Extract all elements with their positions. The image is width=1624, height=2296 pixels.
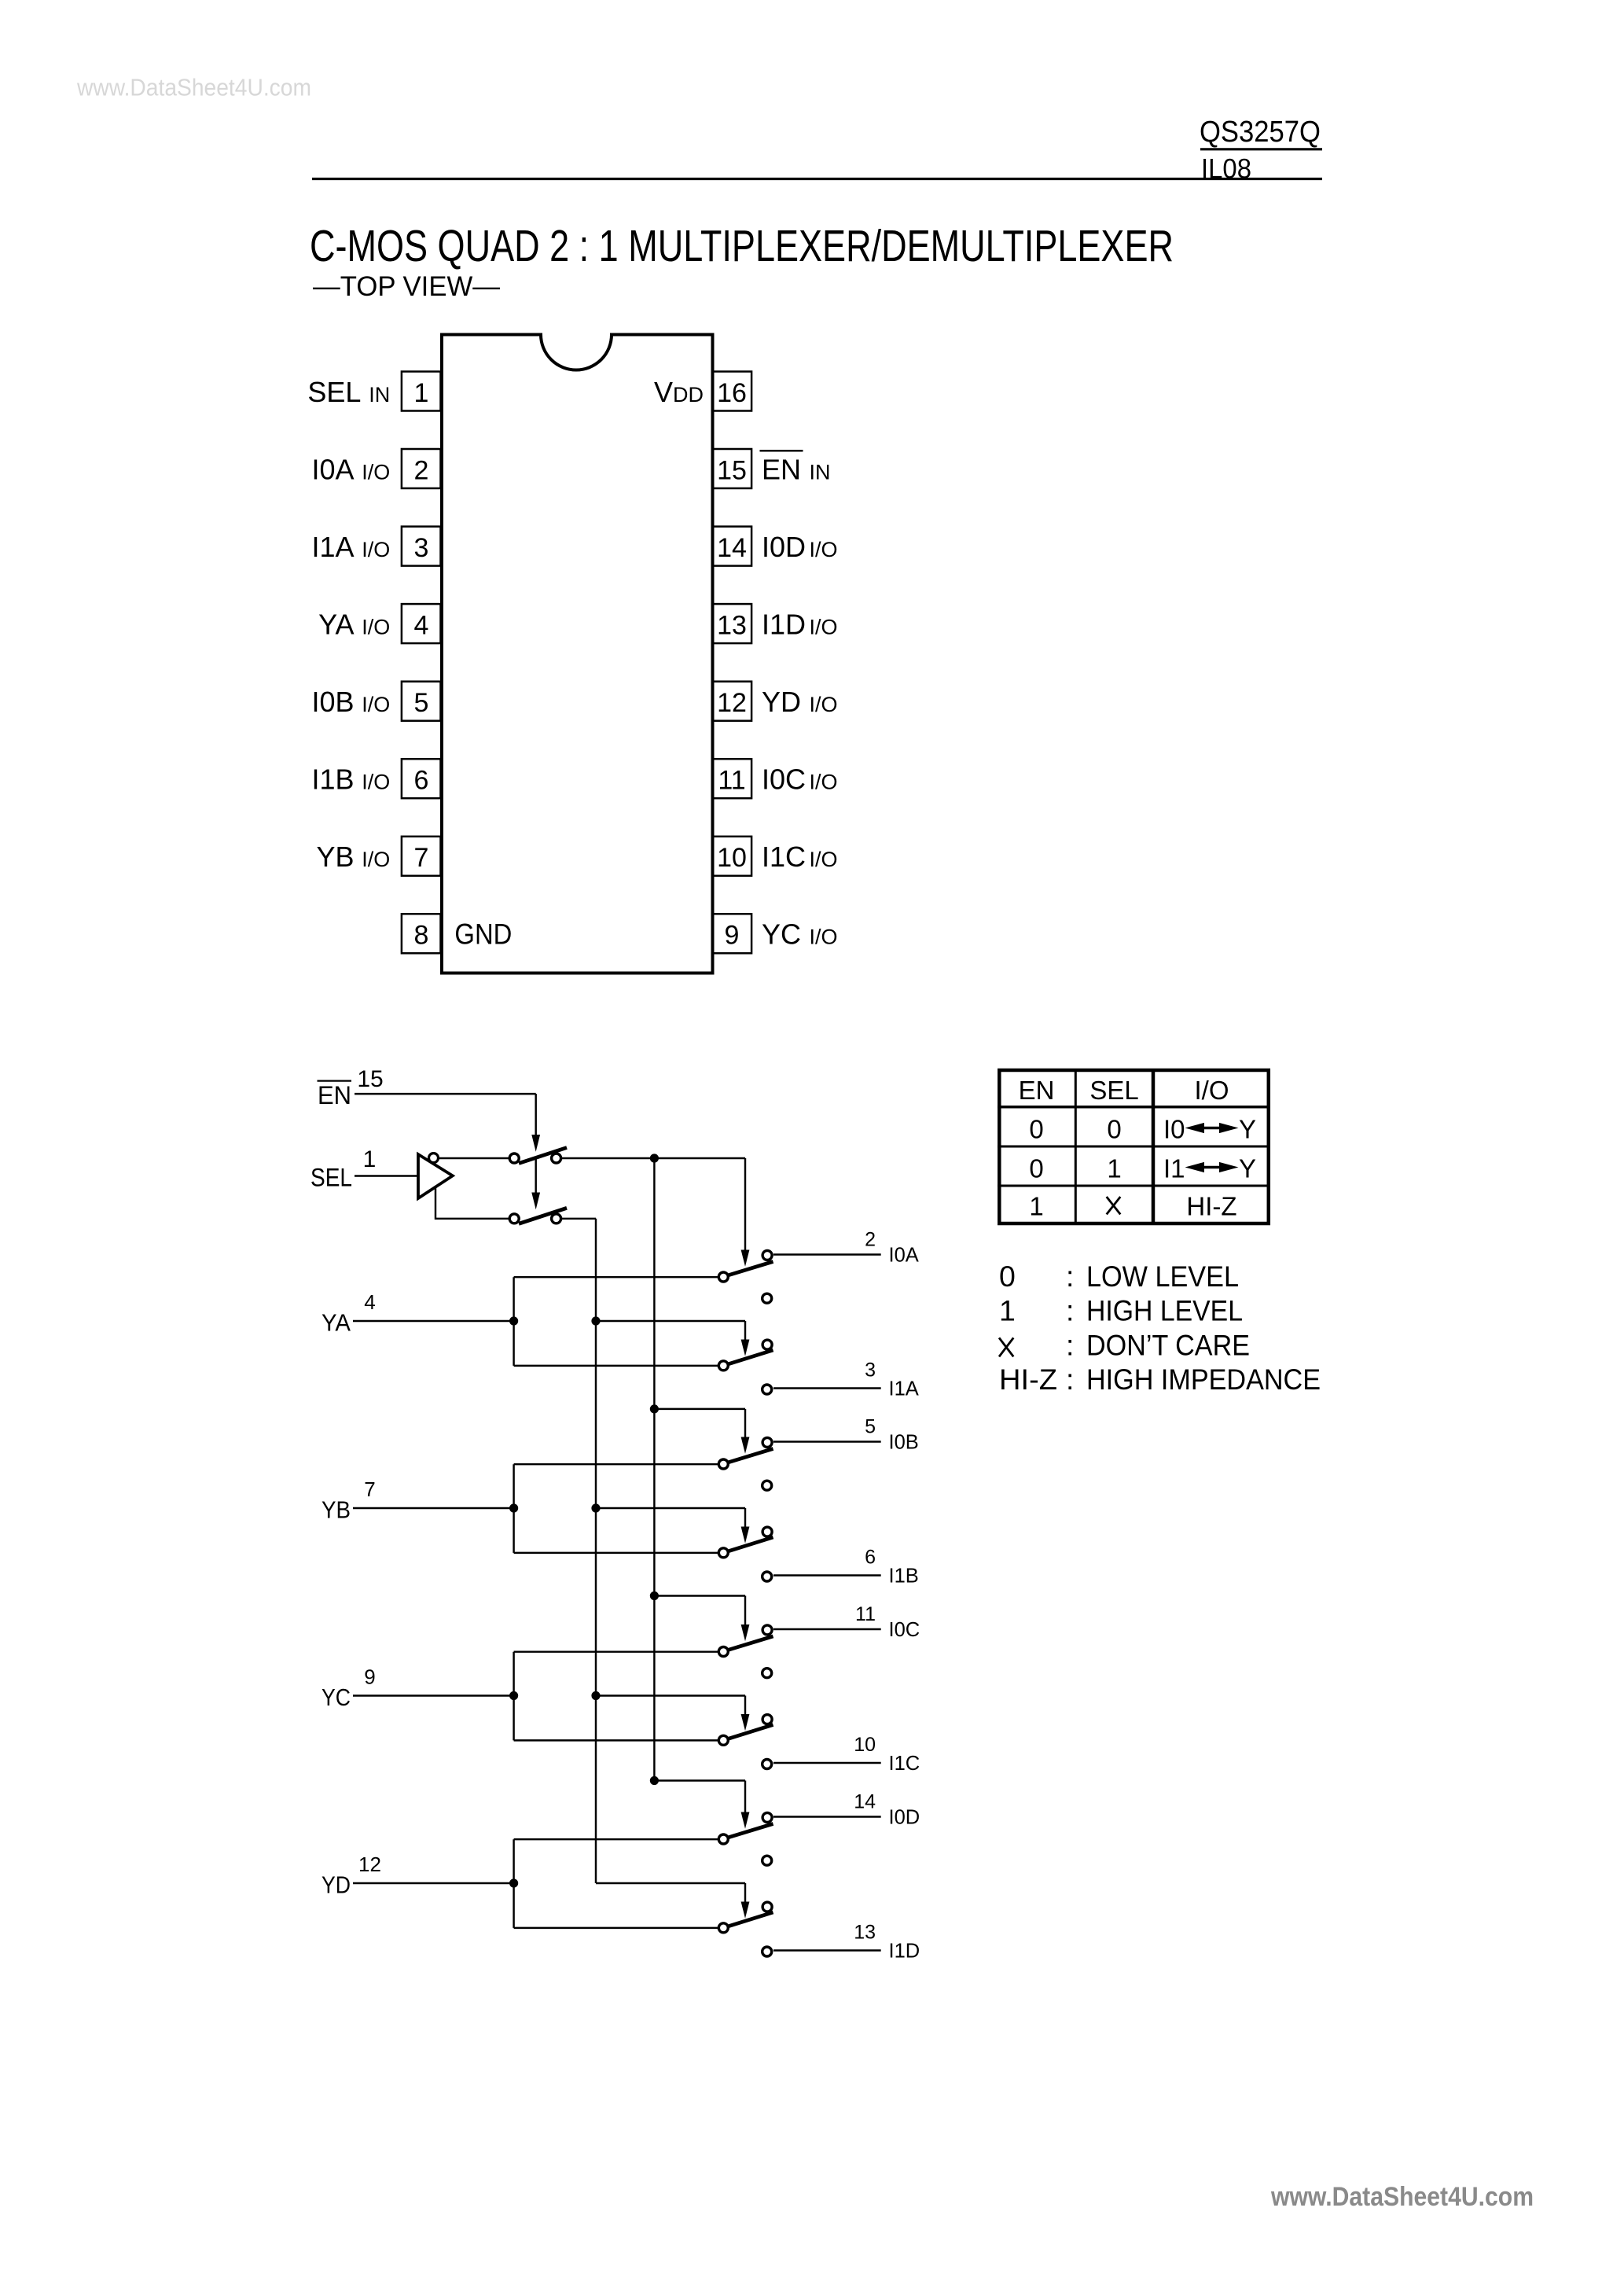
wire YB input <box>353 1507 514 1509</box>
svg-text::: : <box>1066 1260 1074 1293</box>
svg-text:I1D: I1D <box>889 1941 920 1963</box>
wire I0C to pin 11 <box>773 1628 881 1630</box>
svg-text:10: 10 <box>717 843 747 873</box>
wire I1A control drop <box>744 1321 746 1340</box>
svg-text:I1B: I1B <box>311 763 354 796</box>
junction SEL-bar tap channel D <box>650 1776 659 1785</box>
svg-text:I1C: I1C <box>762 841 806 873</box>
wire SEL tap to I1A control <box>596 1320 745 1322</box>
truth table frame <box>999 1070 1269 1223</box>
analog switch S1 (enable gate, SEL-bar path) <box>509 1148 567 1164</box>
inverter bubble on buffer complementary output <box>429 1154 439 1163</box>
pin 5 box <box>402 682 441 721</box>
svg-text:I/O: I/O <box>362 771 390 794</box>
truth table row line 1 <box>998 1146 1270 1148</box>
wire I0C control drop <box>744 1596 746 1625</box>
pin 9 label YC I/O <box>762 918 838 951</box>
legend row HI-Z HIGH IMPEDANCE <box>999 1363 1321 1396</box>
svg-text:YB: YB <box>321 1496 351 1524</box>
svg-text:I1A: I1A <box>311 531 354 563</box>
header rule <box>312 178 1322 180</box>
arrow /EN control into switch S2 <box>531 1193 540 1210</box>
svg-text:I0B: I0B <box>889 1432 919 1454</box>
svg-text:I1B: I1B <box>889 1566 919 1588</box>
svg-text:SEL: SEL <box>307 376 361 408</box>
svg-text:4: 4 <box>414 610 429 640</box>
pin 7 box <box>402 837 441 876</box>
pin 8 box <box>402 914 441 953</box>
node A junction (SEL-bar control net) <box>650 1154 659 1162</box>
wire YC to switch I0C common <box>514 1650 718 1652</box>
analog switch I1B <box>718 1527 773 1558</box>
svg-text:4: 4 <box>364 1290 375 1314</box>
svg-text:8: 8 <box>414 921 429 951</box>
wire SEL control net vertical <box>595 1219 597 1883</box>
svg-text:7: 7 <box>364 1477 375 1501</box>
svg-text:I/O: I/O <box>810 693 838 716</box>
wire YD branch vertical <box>513 1839 514 1928</box>
wire I0D control drop <box>744 1781 746 1812</box>
truth table column line SEL|I/O <box>1152 1069 1156 1225</box>
wire buffer true output to switch S2 <box>435 1187 509 1219</box>
wire I1C control drop <box>744 1696 746 1715</box>
svg-text:I0D: I0D <box>762 531 806 563</box>
wire YC to switch I1C common <box>514 1739 718 1741</box>
svg-text:0: 0 <box>1029 1115 1043 1144</box>
svg-text:www.DataSheet4U.com: www.DataSheet4U.com <box>76 74 311 101</box>
svg-text:10: 10 <box>854 1734 876 1756</box>
svg-text:16: 16 <box>717 378 747 408</box>
wire SEL-bar tap to I0B control <box>654 1408 745 1410</box>
svg-text:15: 15 <box>717 455 747 485</box>
open contact of switch I1C upper throw <box>762 1669 772 1678</box>
svg-text:I0: I0 <box>1163 1115 1185 1144</box>
pin 11 label I0C I/O <box>762 763 838 796</box>
pin 3 box <box>402 527 441 566</box>
svg-text:EN: EN <box>762 453 801 485</box>
wire YA input <box>353 1320 514 1322</box>
svg-text:I/O: I/O <box>362 615 390 638</box>
net YD label with pin number 12 <box>321 1853 381 1899</box>
svg-text:7: 7 <box>414 843 429 873</box>
pin 11 box <box>713 759 752 798</box>
svg-text:QS3257Q: QS3257Q <box>1200 116 1321 149</box>
truth table column line EN|SEL <box>1075 1069 1077 1225</box>
wire SEL tap to I1B control <box>596 1507 745 1509</box>
svg-text:YD: YD <box>762 686 801 718</box>
svg-text:YD: YD <box>321 1871 351 1899</box>
net YB label with pin number 7 <box>321 1477 376 1524</box>
svg-text:11: 11 <box>855 1603 876 1625</box>
svg-text:IN: IN <box>810 460 831 484</box>
wire SEL input to buffer <box>355 1175 417 1176</box>
junction SEL tap channel C <box>591 1691 600 1700</box>
net /EN label with overline and pin number 15 <box>318 1066 384 1109</box>
svg-text:LOW LEVEL: LOW LEVEL <box>1086 1260 1239 1293</box>
wire S2 output <box>561 1218 596 1220</box>
arrow control into switch I0C <box>741 1624 750 1641</box>
svg-text:13: 13 <box>717 610 747 640</box>
pin 13 label I1D I/O <box>762 608 838 640</box>
svg-text:EN: EN <box>1019 1076 1055 1105</box>
junction SEL-bar tap channel C <box>650 1591 659 1600</box>
svg-text:SEL: SEL <box>1089 1076 1138 1105</box>
analog switch I0B <box>718 1437 773 1469</box>
svg-text:0: 0 <box>999 1260 1016 1293</box>
wire SEL tap to I1C control <box>596 1694 745 1696</box>
svg-text:12: 12 <box>717 688 747 718</box>
svg-text::: : <box>1066 1294 1074 1327</box>
svg-text:V: V <box>654 376 673 408</box>
svg-text:5: 5 <box>865 1415 876 1437</box>
svg-text:I/O: I/O <box>810 771 838 794</box>
pin 15 label /EN IN (active-low enable) <box>760 451 831 485</box>
wire /EN vertical to switch S1 <box>535 1094 536 1135</box>
pin 16 label VDD <box>654 376 704 408</box>
svg-text:14: 14 <box>717 533 747 563</box>
pin 6 box <box>402 759 441 798</box>
svg-text:1: 1 <box>1029 1192 1043 1221</box>
open contact of switch I1A upper throw <box>762 1293 772 1303</box>
wire I1B to pin 6 <box>773 1574 881 1576</box>
svg-text:9: 9 <box>725 921 740 951</box>
junction YA branch <box>509 1316 518 1325</box>
svg-text:13: 13 <box>854 1922 876 1944</box>
pin 4 box <box>402 604 441 643</box>
wire I1C to pin 10 <box>773 1762 881 1764</box>
pin 15 box <box>713 449 752 488</box>
wire YA to switch I1A common <box>514 1365 718 1367</box>
pin 4 label YA I/O <box>318 608 390 640</box>
svg-text:3: 3 <box>865 1360 876 1382</box>
truth table header rule <box>998 1106 1270 1109</box>
wire YB branch vertical <box>513 1464 514 1553</box>
wire I1D to pin 13 <box>773 1949 881 1951</box>
doc number underline <box>1200 148 1322 150</box>
analog switch I1A <box>718 1340 773 1371</box>
IC package outline (DIP-16, top view) <box>442 335 713 973</box>
svg-text:15: 15 <box>357 1066 383 1092</box>
wire YA branch vertical <box>513 1277 514 1366</box>
wire YD to switch I0D common <box>514 1838 718 1840</box>
arrow control into switch I0B <box>741 1437 750 1454</box>
svg-text:SEL: SEL <box>310 1164 352 1192</box>
net YC label with pin number 9 <box>321 1665 376 1712</box>
contact of switch I1C to pin 10 <box>762 1760 772 1769</box>
pin 13 box <box>713 604 752 643</box>
wire I0B control drop <box>744 1409 746 1437</box>
svg-text:0: 0 <box>1107 1115 1121 1144</box>
svg-text:I1: I1 <box>1163 1154 1185 1183</box>
wire YA to switch I0A common <box>514 1276 718 1278</box>
wire YC input <box>353 1694 514 1696</box>
svg-text:I0A: I0A <box>889 1245 919 1267</box>
svg-text:I0B: I0B <box>311 686 354 718</box>
svg-text:0: 0 <box>1029 1154 1043 1183</box>
contact of switch I1B to pin 6 <box>762 1572 772 1581</box>
pin 14 label I0D I/O <box>762 531 838 563</box>
wire I1A to pin 3 <box>773 1387 881 1389</box>
svg-text:2: 2 <box>865 1228 876 1250</box>
arrow control into switch I0A <box>741 1250 750 1267</box>
svg-text:HI-Z: HI-Z <box>999 1363 1057 1396</box>
truth table cell I1 bidirectional Y row2 <box>1163 1154 1256 1183</box>
svg-text:GND: GND <box>454 918 512 951</box>
svg-text:DON’T CARE: DON’T CARE <box>1086 1328 1250 1361</box>
svg-text:I/O: I/O <box>1194 1076 1229 1105</box>
analog switch S2 (enable gate, SEL path) <box>509 1208 567 1223</box>
svg-text:2: 2 <box>414 455 429 485</box>
pin 14 box <box>713 527 752 566</box>
svg-text:HI-Z: HI-Z <box>1186 1192 1236 1221</box>
wire YD to switch I1D common <box>514 1927 718 1929</box>
svg-text:YC: YC <box>762 918 801 951</box>
svg-text:I/O: I/O <box>362 848 390 871</box>
net YA label with pin number 4 <box>321 1290 376 1337</box>
wire I0D to pin 14 <box>773 1816 881 1817</box>
wire buffer complement output to switch S1 <box>439 1157 509 1159</box>
truth table cell don't-care cross row3 <box>1107 1197 1121 1214</box>
svg-text:HIGH LEVEL: HIGH LEVEL <box>1086 1294 1243 1327</box>
svg-text:I/O: I/O <box>810 925 838 949</box>
junction YB branch <box>509 1503 518 1512</box>
legend row 1 HIGH LEVEL <box>999 1294 1243 1327</box>
analog switch I1C <box>718 1715 773 1746</box>
svg-text:YA: YA <box>321 1309 351 1337</box>
svg-text:YA: YA <box>318 608 354 640</box>
wire YB to switch I1B common <box>514 1552 718 1554</box>
pin 1 box <box>402 372 441 411</box>
wire SEL-bar tap to I0C control <box>654 1595 745 1596</box>
svg-text:Y: Y <box>1239 1115 1256 1144</box>
junction SEL tap channel B <box>591 1503 600 1512</box>
open contact of switch I1D upper throw <box>762 1856 772 1865</box>
net SEL label with pin number 1 <box>310 1146 376 1192</box>
analog switch I0A <box>718 1250 773 1282</box>
svg-text:DD: DD <box>673 383 704 407</box>
svg-text:I1A: I1A <box>889 1378 919 1400</box>
svg-text:6: 6 <box>414 766 429 796</box>
pin 12 label YD I/O <box>762 686 838 718</box>
legend row x DON'T CARE <box>999 1328 1250 1361</box>
wire I0B to pin 5 <box>773 1441 881 1442</box>
svg-text:YB: YB <box>316 841 354 873</box>
analog switch I1D <box>718 1902 773 1933</box>
pin 12 box <box>713 682 752 721</box>
pin 1 label SEL IN <box>307 376 390 408</box>
svg-text:I1D: I1D <box>762 608 806 640</box>
open contact of switch I1B upper throw <box>762 1481 772 1490</box>
svg-text:I0C: I0C <box>762 763 806 796</box>
wire I1D control drop <box>744 1883 746 1902</box>
svg-text:YC: YC <box>321 1683 351 1711</box>
svg-text:I/O: I/O <box>362 460 390 484</box>
svg-text:—TOP VIEW—: —TOP VIEW— <box>313 271 500 302</box>
junction YC branch <box>509 1691 518 1700</box>
wire I1B control drop <box>744 1508 746 1527</box>
svg-text:1: 1 <box>363 1146 377 1172</box>
svg-text:5: 5 <box>414 688 429 718</box>
svg-text:9: 9 <box>364 1665 375 1689</box>
wire SEL tap to I1D control <box>596 1882 745 1884</box>
pin 16 box <box>713 372 752 411</box>
pin 6 label I1B I/O <box>311 763 390 796</box>
arrow /EN control into switch S1 <box>531 1135 540 1152</box>
svg-text:14: 14 <box>854 1790 876 1812</box>
svg-text:I/O: I/O <box>810 848 838 871</box>
svg-text:6: 6 <box>865 1547 876 1569</box>
junction SEL tap channel A <box>591 1316 600 1325</box>
svg-text:I/O: I/O <box>810 615 838 638</box>
svg-text:I/O: I/O <box>362 538 390 561</box>
svg-text:I/O: I/O <box>362 693 390 716</box>
pin 2 label I0A I/O <box>311 453 390 485</box>
arrow control into switch I1A <box>741 1340 750 1356</box>
svg-text:3: 3 <box>414 533 429 563</box>
svg-text:I1C: I1C <box>889 1753 920 1775</box>
buffer U2 (SEL driver) <box>418 1154 453 1198</box>
analog switch I0C <box>718 1625 773 1657</box>
wire YC branch vertical <box>513 1652 514 1741</box>
svg-text:I/O: I/O <box>810 538 838 561</box>
wire S1 output to node A and I0 control <box>561 1157 745 1159</box>
pin 9 box <box>713 914 752 953</box>
pin 10 box <box>713 837 752 876</box>
svg-text:HIGH IMPEDANCE: HIGH IMPEDANCE <box>1086 1363 1321 1396</box>
svg-text:1: 1 <box>999 1294 1016 1327</box>
svg-text:1: 1 <box>414 378 429 408</box>
svg-text::: : <box>1066 1363 1074 1396</box>
svg-text:1: 1 <box>1107 1154 1121 1183</box>
legend row 0 LOW LEVEL <box>999 1260 1239 1293</box>
junction SEL-bar tap channel B <box>650 1404 659 1413</box>
analog switch I0D <box>718 1812 773 1844</box>
pin 2 box <box>402 449 441 488</box>
pin 5 label I0B I/O <box>311 686 390 718</box>
wire /EN vertical to switch S2 <box>535 1160 536 1194</box>
pin 7 label YB I/O <box>316 841 390 873</box>
contact of switch I1D to pin 13 <box>762 1947 772 1956</box>
truth table row line 2 <box>998 1185 1270 1187</box>
wire SEL-bar control net vertical <box>653 1158 655 1781</box>
junction YD branch <box>509 1878 518 1887</box>
wire I0A control drop <box>744 1158 746 1250</box>
svg-text:IN: IN <box>369 383 390 407</box>
wire YB to switch I0B common <box>514 1463 718 1465</box>
contact of switch I1A to pin 3 <box>762 1385 772 1394</box>
arrow control into switch I1B <box>741 1527 750 1544</box>
svg-text:EN: EN <box>318 1081 351 1109</box>
wire YD input <box>353 1882 514 1884</box>
svg-text:I0C: I0C <box>889 1619 920 1641</box>
svg-text::: : <box>1066 1328 1074 1361</box>
svg-text:12: 12 <box>358 1853 381 1876</box>
pin 10 label I1C I/O <box>762 841 838 873</box>
svg-text:C-MOS QUAD 2 : 1 MULTIPLEXER/D: C-MOS QUAD 2 : 1 MULTIPLEXER/DEMULTIPLEX… <box>310 221 1174 271</box>
truth table cell I0 bidirectional Y row1 <box>1163 1115 1256 1144</box>
arrow control into switch I1C <box>741 1714 750 1731</box>
wire /EN horizontal <box>355 1093 536 1095</box>
svg-text:I0D: I0D <box>889 1807 920 1829</box>
svg-text:11: 11 <box>718 766 745 796</box>
wire SEL-bar tap to I0D control <box>654 1779 745 1781</box>
pin 3 label I1A I/O <box>311 531 390 563</box>
svg-text:I0A: I0A <box>311 453 354 485</box>
arrow control into switch I0D <box>741 1812 750 1829</box>
svg-text:www.DataSheet4U.com: www.DataSheet4U.com <box>1270 2182 1534 2212</box>
wire I0A to pin 2 <box>773 1253 881 1255</box>
svg-text:Y: Y <box>1239 1154 1256 1183</box>
arrow control into switch I1D <box>741 1902 750 1919</box>
